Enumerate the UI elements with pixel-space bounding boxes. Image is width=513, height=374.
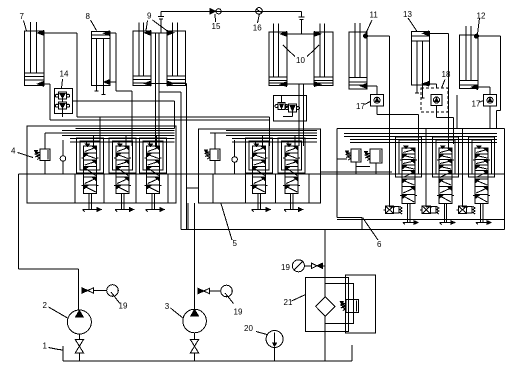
svg-text:1: 1 [43, 342, 48, 351]
valve block 14 [54, 89, 72, 118]
pilot rails group 5 [210, 130, 317, 142]
pilot rails group 4 [45, 128, 175, 142]
svg-text:15: 15 [212, 22, 221, 31]
label 9 [146, 12, 168, 32]
shutoff valve pump 2 [75, 334, 83, 361]
work drop valve 6-3 [462, 129, 468, 207]
filter 21 housing [306, 275, 376, 333]
tank line 1 [63, 346, 352, 361]
label 6 [363, 218, 383, 249]
label 7 [20, 12, 27, 31]
label 11 [366, 11, 379, 34]
check valve 15 [210, 9, 221, 14]
check valve filter [304, 263, 325, 268]
wire block14 drop [173, 101, 175, 129]
svg-text:12: 12 [477, 12, 486, 21]
label 15 [212, 14, 221, 31]
wire gauge17L to group6 [377, 106, 419, 144]
gauge port group 4 [60, 140, 66, 174]
tank line valve 5-1 [252, 194, 271, 212]
directional valve 5-2 [283, 144, 300, 193]
wire bus B [50, 119, 269, 121]
label 19 filter [281, 263, 290, 272]
feedback lines valve 4-2 [109, 138, 136, 173]
tank line valve 6-2 [440, 204, 455, 225]
valve block below cylinder 10 [274, 95, 307, 121]
wire switch18 to group6 [437, 106, 454, 145]
directional valve 4-3 [145, 144, 162, 193]
wire block14 output bus [73, 100, 175, 102]
pilot drops valve 5-1 [256, 135, 263, 145]
work drop valve 6-2 [426, 129, 432, 207]
svg-text:10: 10 [296, 56, 305, 65]
label 19 pump3 [234, 308, 243, 317]
wire tank return group5 [187, 188, 199, 230]
wire group 6 supply [321, 171, 392, 173]
pressure gauge 19 pump3 [221, 285, 234, 303]
tank line valve 6-1 [403, 204, 418, 225]
label 16 [253, 15, 262, 33]
svg-text:16: 16 [253, 23, 262, 32]
label 10 [283, 45, 319, 65]
work drop valve 6-1 [389, 129, 395, 207]
wire cyl9 mid to return [159, 91, 181, 93]
pressure gauge 19 filter [292, 260, 304, 272]
wire cyl8 ports [110, 33, 116, 91]
label 14 [60, 69, 69, 88]
hydraulic cylinder 10 left [269, 24, 287, 87]
filter bypass loop [325, 284, 353, 324]
feedback lines valve 4-3 [140, 138, 167, 173]
pressure gauge 20 [266, 331, 283, 362]
label 3 [165, 302, 184, 318]
wire cyl7 head to manifold [44, 33, 77, 117]
hydraulic cylinder 10 right [314, 24, 333, 87]
wire top rail [161, 10, 302, 12]
svg-text:8: 8 [86, 12, 91, 21]
hydraulic cylinder 9 right [167, 22, 186, 85]
label 20 [244, 324, 267, 334]
shutoff valve pump 3 [190, 333, 198, 361]
feedback lines valve 5-1 [246, 138, 273, 173]
label 4 [11, 146, 33, 157]
hydraulic cylinder 12 [459, 26, 478, 89]
svg-text:11: 11 [370, 11, 379, 20]
label 5 [221, 204, 238, 249]
wire gauge17R to group6 [489, 106, 491, 129]
hydraulic cylinder 8 [92, 31, 111, 95]
hydraulic cylinder 11 [349, 23, 368, 89]
svg-text:4: 4 [11, 146, 16, 155]
svg-text:9: 9 [147, 12, 152, 21]
wire cyl13 rod line [429, 84, 436, 88]
directional valve 6-3 [473, 146, 490, 203]
svg-text:19: 19 [119, 302, 128, 311]
relief valve 6a [337, 149, 361, 174]
svg-text:7: 7 [20, 12, 25, 21]
wire cylinder 10 down pair [299, 84, 304, 146]
label 2 [43, 301, 68, 318]
wire cylinder 10 head ports [287, 33, 314, 35]
wire cyl12 head line [478, 36, 501, 128]
pump 3 [183, 309, 207, 333]
hydraulic cylinder 7 [25, 22, 45, 86]
wire cylinder 9 head ports [151, 32, 167, 34]
wire cyl8 to group4 [116, 91, 132, 146]
check valve pump 3 [198, 288, 220, 293]
pilot drops valve 4-1 [87, 135, 94, 145]
valve group 6 frame [325, 129, 505, 230]
pressure gauge 17 left [370, 94, 383, 106]
filter 21 element [316, 297, 335, 317]
tank line valve 6-3 [476, 204, 491, 225]
tank line valve 5-2 [284, 194, 303, 212]
gauge port group 5 [232, 140, 238, 174]
hydraulic cylinder 9 left [133, 22, 151, 85]
pressure switch 18 [421, 88, 448, 112]
pilot valve 6-1 [383, 206, 402, 214]
pilot drops valve 4-3 [150, 135, 157, 145]
wire cyl12 rod line [478, 87, 490, 94]
directional valve 6-2 [437, 146, 454, 203]
pressure gauge 19 pump2 [107, 285, 120, 303]
wire return header [181, 229, 325, 231]
pressure gauge 17 right [484, 94, 497, 106]
wire cyl11 rod line [367, 86, 377, 94]
directional valve 5-1 [251, 144, 268, 193]
svg-text:17: 17 [472, 99, 481, 108]
pilot valve 6-3 [456, 206, 475, 214]
feedback lines valve 6-1 [396, 137, 422, 177]
filter bypass valve [340, 300, 358, 313]
wire bus A drop [99, 117, 101, 146]
P rail [19, 173, 504, 175]
svg-text:19: 19 [281, 263, 290, 272]
wire pump2 supply [19, 174, 79, 310]
wire bus A [77, 116, 270, 118]
wire spare drop [456, 95, 458, 129]
directional valve 4-2 [114, 144, 131, 193]
label 13 [403, 10, 418, 32]
feedback lines valve 6-2 [433, 137, 459, 177]
tank line valve 4-3 [146, 194, 165, 212]
valve group 4 frame [27, 126, 176, 203]
quick coupling 16 [256, 8, 263, 15]
chamber separators group 4 [75, 174, 168, 203]
svg-text:20: 20 [244, 324, 253, 333]
chamber separators group 5 [213, 174, 309, 203]
label 18 [442, 70, 451, 88]
svg-text:5: 5 [233, 239, 238, 248]
wire group4 tank drop [187, 203, 189, 229]
label 8 [86, 12, 97, 31]
wire inter-group drop B [186, 84, 188, 230]
feedback lines valve 6-3 [469, 137, 495, 177]
relief valve group 5 [205, 133, 221, 174]
svg-text:21: 21 [284, 298, 293, 307]
wire bus AB drop [269, 117, 271, 146]
feedback lines valve 4-1 [77, 138, 104, 173]
svg-text:3: 3 [165, 302, 170, 311]
wire cyl13 head line [429, 33, 448, 148]
wire return to filter [324, 230, 326, 297]
coupling plug on cylinder 9 line [158, 11, 164, 33]
valve group 5 frame [199, 129, 321, 203]
wire cyl11 head line [366, 36, 389, 144]
pilot rails group 6 [344, 134, 497, 143]
tank line valve 4-2 [115, 194, 134, 212]
wire filter to tank [324, 316, 326, 361]
pilot drops valve 4-2 [119, 135, 126, 145]
wire cyl7 rod to manifold [44, 84, 50, 120]
tank line valve 4-1 [83, 194, 102, 212]
wire inter-group drop A [180, 92, 182, 230]
label 17 right [472, 99, 484, 108]
relief valve group 4 [35, 133, 51, 174]
svg-text:6: 6 [377, 240, 382, 249]
hydraulic cylinder 13 [411, 31, 429, 98]
group 6 inner bottom line [337, 218, 504, 220]
wire cylinder 10 rod ports [287, 83, 314, 85]
directional valve 4-1 [82, 144, 99, 193]
svg-text:19: 19 [234, 308, 243, 317]
feedback lines valve 5-2 [278, 138, 305, 173]
svg-text:14: 14 [60, 69, 69, 78]
svg-text:2: 2 [43, 301, 48, 310]
directional valve 6-1 [400, 146, 417, 203]
label 12 [477, 12, 486, 34]
wire filter bypass return [351, 345, 353, 361]
wire pump3 supply [194, 203, 196, 309]
svg-text:17: 17 [356, 102, 365, 111]
label 21 [284, 295, 306, 307]
relief valve 6b [356, 149, 382, 174]
pump 2 [67, 310, 91, 334]
check valve pump 2 [82, 288, 106, 293]
label 17 left [356, 102, 370, 111]
coupling plug on cylinder 10 line [299, 11, 305, 34]
wire cylinder 9 rod ports [151, 83, 187, 85]
label 1 [43, 342, 63, 351]
pilot valve 6-2 [420, 206, 439, 214]
svg-text:13: 13 [403, 10, 412, 19]
node cylinder 9 center lines [156, 33, 160, 146]
pilot drops valve 5-2 [288, 135, 295, 145]
label 19 pump2 [119, 302, 128, 311]
svg-text:18: 18 [442, 70, 451, 79]
